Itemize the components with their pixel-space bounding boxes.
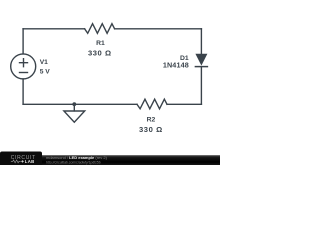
- watermark logo box: [0, 152, 42, 166]
- svg-text:htto://circuitlab.com/c/adwfy/: htto://circuitlab.com/c/adwfy/1pdfz5b: [46, 160, 101, 164]
- wire left vertical lower (source bottom to bottom rail): [22, 79, 24, 104]
- wire right vertical lower (diode to bottom rail): [200, 67, 202, 104]
- logo diamond: [21, 160, 24, 163]
- wire right vertical upper (top rail to diode): [200, 29, 202, 54]
- svg-text:R2: R2: [147, 116, 156, 123]
- ground triangle: [64, 111, 85, 122]
- V1 plus sign: [20, 59, 28, 67]
- logo squiggle: [11, 160, 21, 163]
- svg-text:330 Ω: 330 Ω: [139, 125, 163, 134]
- wire top-left vertical (source top to top rail): [22, 29, 24, 54]
- svg-text:V1: V1: [40, 59, 48, 66]
- wire top rail left segment: [23, 28, 85, 30]
- resistor R1: [85, 24, 115, 34]
- junction node dot: [72, 102, 76, 106]
- diode D1 cathode bar: [195, 66, 207, 68]
- svg-text:330 Ω: 330 Ω: [88, 49, 112, 58]
- ground stub: [73, 104, 75, 111]
- diode D1 triangle: [195, 54, 207, 66]
- voltage source V1 circle: [11, 54, 36, 79]
- wire bottom rail left segment: [23, 103, 137, 105]
- resistor R2: [137, 99, 167, 109]
- wire bottom rail right segment: [167, 103, 201, 105]
- V1 minus sign: [20, 72, 28, 74]
- wire top rail right segment: [115, 28, 202, 30]
- svg-text:1N4148: 1N4148: [163, 61, 189, 70]
- svg-text:R1: R1: [96, 40, 105, 47]
- svg-text:LAB: LAB: [25, 159, 35, 164]
- svg-text:5 V: 5 V: [40, 69, 51, 76]
